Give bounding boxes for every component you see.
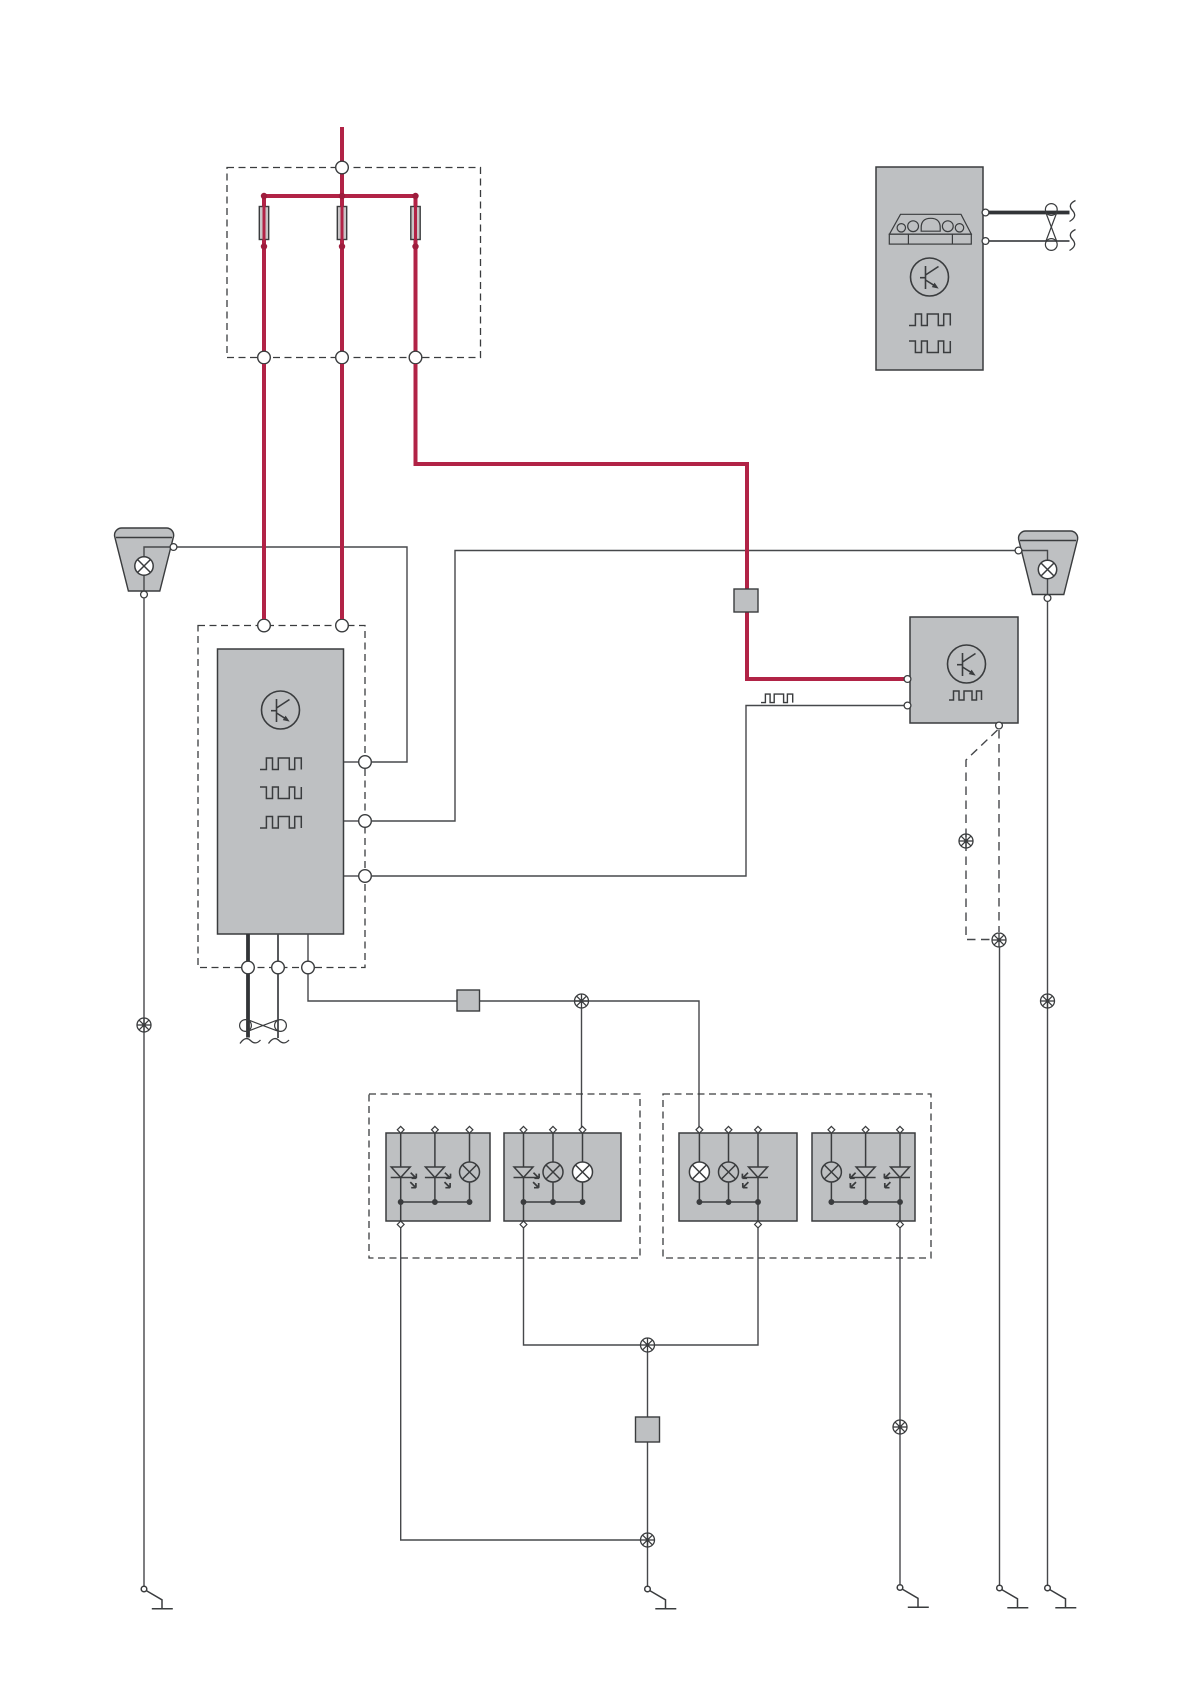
ground for lamp unit 4 <box>897 1585 929 1608</box>
square wave symbol 2 in flasher module <box>260 787 301 799</box>
connector at flasher module top pin 1 <box>258 619 271 632</box>
connector at flasher module bottom pin 1 <box>242 961 255 974</box>
lamp unit 1 body <box>386 1133 490 1221</box>
bulb 1 in lamp unit 3 (active) <box>689 1133 709 1202</box>
lamp unit 2 body <box>504 1133 621 1221</box>
connector at fuse box bottom pin 3 <box>409 351 422 364</box>
pin diamonds of lamp unit 4 <box>828 1126 903 1228</box>
twisted pair symbol on data wires <box>1045 204 1057 251</box>
red wire from fuse F2 to flasher module pin <box>340 364 344 619</box>
square wave symbol on signal wire <box>761 694 793 703</box>
right lamp cluster boundary (dashed) <box>663 1094 931 1258</box>
LED 2 in lamp unit 4 (mirrored) <box>884 1130 910 1202</box>
battery feed wire (red, from top of page) <box>340 127 344 162</box>
wire from left lamp to flasher pin 1 <box>177 547 408 762</box>
connector at fuse box bottom pin 1 <box>258 351 271 364</box>
left lamp cluster boundary (dashed) <box>369 1094 640 1258</box>
LED 1 in lamp unit 1 <box>391 1130 417 1202</box>
pin circle: instrument cluster pin 1 <box>982 209 989 216</box>
LED 2 in lamp unit 1 <box>425 1130 451 1202</box>
wire from lamp unit 1 to bottom splice <box>401 1228 641 1540</box>
connector at fuse box top <box>336 161 349 174</box>
fuse box boundary (dashed) <box>227 168 481 358</box>
ground for left lamp <box>141 1586 173 1609</box>
bulb in lamp unit 4 <box>821 1133 841 1202</box>
transistor symbol in right control module <box>948 645 986 683</box>
wire from module body to right pin 2 <box>344 820 359 822</box>
wire from module body to right pin 1 <box>344 761 359 763</box>
dashed ground wire (diagonal branch) from right module <box>966 730 998 940</box>
left side marker lamp <box>115 528 177 598</box>
square wave symbol 2 in instrument cluster <box>909 341 950 353</box>
splice on lamp unit 4 ground wire <box>893 1420 907 1434</box>
bulb 1 in lamp unit 2 <box>543 1133 563 1202</box>
square wave symbol 1 in instrument cluster <box>909 314 950 326</box>
splice on dashed branch <box>959 834 973 848</box>
internal rail of lamp unit 3 <box>697 1200 760 1221</box>
ground for right lamp <box>1045 1585 1077 1608</box>
pin circle: instrument cluster pin 2 <box>982 238 989 245</box>
wire break squiggle left <box>240 1039 261 1044</box>
LED 1 in lamp unit 4 (mirrored) <box>850 1130 876 1202</box>
connector at fuse box bottom pin 2 <box>336 351 349 364</box>
wire break squiggle top data wire <box>1070 201 1076 222</box>
dashed ground wire (straight) from right module <box>998 730 1000 932</box>
right side marker lamp <box>1015 531 1078 601</box>
bulb 2 in lamp unit 2 (active) <box>573 1133 593 1202</box>
wire from lamp unit 3 to splice <box>654 1228 758 1345</box>
bulb 2 in lamp unit 3 <box>719 1133 739 1202</box>
connector at flasher module bottom pin 3 <box>302 961 315 974</box>
fuse box internal red bus <box>264 174 416 352</box>
red wire from fuse F3 to right control module <box>416 364 905 679</box>
instrument cluster body <box>876 167 983 370</box>
wire break squiggle right <box>269 1039 290 1044</box>
thin wire from module to twisted pair <box>277 934 279 1038</box>
wire from flasher pin 2 to right lamp <box>371 551 1015 822</box>
red wire through fuse F2 <box>341 196 344 352</box>
fuse F3 <box>411 207 420 240</box>
ground for right control module <box>997 1585 1029 1608</box>
connector at flasher module right pin 2 <box>359 815 372 828</box>
bulb in lamp unit 1 <box>460 1133 480 1202</box>
lamp unit 4 body <box>812 1133 915 1221</box>
pin circle: right module signal pin <box>904 702 911 709</box>
dashboard icon in instrument cluster <box>889 214 971 244</box>
pin diamonds of lamp unit 2 <box>520 1126 586 1228</box>
ground for lamp clusters <box>645 1586 677 1609</box>
splice on right lamp ground wire <box>1041 994 1055 1008</box>
wire from left lamp to ground <box>143 598 145 1586</box>
wire break squiggle bottom data wire <box>1070 230 1076 251</box>
LED in lamp unit 3 (mirrored) <box>742 1130 768 1202</box>
internal rail of lamp unit 1 <box>399 1200 472 1221</box>
splice on lamp feed wire <box>575 994 589 1008</box>
wire from lamp unit 4 to ground <box>899 1228 901 1585</box>
splice on left lamp ground wire <box>137 1018 151 1032</box>
thin data wire from instrument cluster <box>989 240 1070 242</box>
wire from lamp unit 2 to splice <box>524 1228 642 1345</box>
flasher module boundary (dashed) <box>198 626 365 968</box>
right control module body <box>910 617 1018 723</box>
thick data wire from instrument cluster <box>989 211 1070 215</box>
junction dots on red bus <box>261 193 419 250</box>
inline connector on cluster ground wire <box>636 1417 660 1442</box>
wire from flasher pin 3 to right control module <box>371 706 904 877</box>
fuse F1 <box>259 207 268 240</box>
internal rail of lamp unit 2 <box>521 1200 584 1221</box>
lamp unit 3 body <box>679 1133 797 1221</box>
splice joining lamp unit 2 and 3 returns <box>641 1338 655 1352</box>
red wire through fuse F1 <box>263 196 266 352</box>
pin circle: right module ground pin <box>996 722 1003 729</box>
red wire through fuse F3 <box>414 196 417 352</box>
connector at flasher module right pin 1 <box>359 756 372 769</box>
wire from right lamp to ground <box>1047 602 1049 1586</box>
inline connector on lamp feed wire <box>457 990 480 1011</box>
pin diamonds of lamp unit 3 <box>696 1126 761 1228</box>
wire from module body to right pin 3 <box>344 875 359 877</box>
square wave symbol 3 in flasher module <box>260 817 301 829</box>
square wave symbol in right control module <box>949 691 982 700</box>
pin diamonds of lamp unit 1 <box>397 1126 473 1228</box>
splice joining dashed ground wires <box>992 933 1006 947</box>
fuse F2 <box>337 207 346 240</box>
connector at flasher module top pin 2 <box>336 619 349 632</box>
wire from splice down to left lamp cluster <box>581 1008 583 1130</box>
transistor symbol in instrument cluster <box>911 258 949 296</box>
wire from splice to ground (right module) <box>999 947 1001 1585</box>
wire from module bottom pin 3 <box>308 934 699 1130</box>
LED in lamp unit 2 <box>514 1130 540 1202</box>
pin circle: right module red supply pin <box>904 676 911 683</box>
splice joining lamp unit 1 return <box>641 1533 655 1547</box>
connector at flasher module bottom pin 2 <box>272 961 285 974</box>
transistor symbol in flasher module <box>262 691 300 729</box>
twisted pair symbol below flasher module <box>240 1020 287 1032</box>
thick wire from module to twisted pair <box>246 934 250 1038</box>
internal rail of lamp unit 4 <box>829 1200 902 1221</box>
wire from splice through connector to ground <box>647 1352 649 1586</box>
square wave symbol 1 in flasher module <box>260 758 301 770</box>
flasher module body <box>218 649 344 934</box>
connector at flasher module right pin 3 <box>359 870 372 883</box>
red wire from fuse F1 to flasher module pin <box>262 364 266 619</box>
inline connector on red wire <box>734 589 758 612</box>
